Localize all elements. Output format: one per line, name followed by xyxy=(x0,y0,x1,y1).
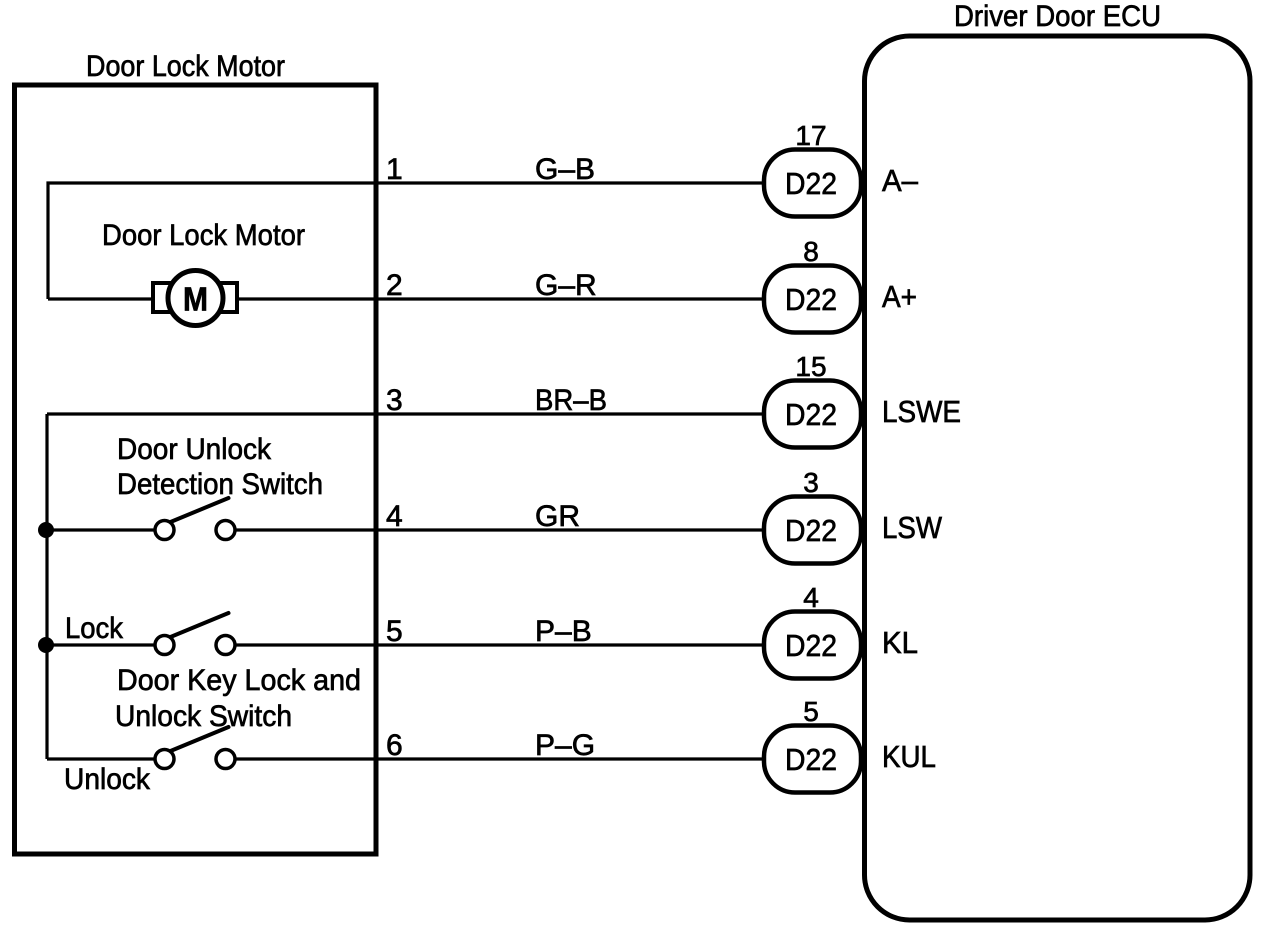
svg-text:Door Key Lock and: Door Key Lock and xyxy=(117,664,361,697)
wire: pin2 motor to D22-8 xyxy=(239,297,764,300)
switch SW2 arm xyxy=(171,613,229,637)
svg-text:KL: KL xyxy=(882,625,918,660)
svg-text:G–B: G–B xyxy=(535,153,595,186)
wire: unlock switch feed xyxy=(47,757,155,760)
wire: pin5 lock switch to D22-4 xyxy=(235,643,764,646)
svg-text:BR–B: BR–B xyxy=(535,384,607,417)
svg-text:GR: GR xyxy=(535,500,580,533)
left component box (door lock motor assembly enclosure) xyxy=(15,85,377,854)
svg-text:Unlock: Unlock xyxy=(64,763,151,796)
svg-text:2: 2 xyxy=(386,269,403,302)
junction node A (bus to detection switch) xyxy=(38,522,54,538)
svg-text:G–R: G–R xyxy=(535,269,597,302)
svg-text:P–G: P–G xyxy=(535,729,595,762)
motor M1 right terminal xyxy=(200,283,237,312)
connector D22 pin 5 oval xyxy=(764,726,861,793)
wire: pin3 switch common to D22-15 xyxy=(47,412,764,415)
svg-text:D22: D22 xyxy=(785,513,837,548)
svg-text:Door Lock Motor: Door Lock Motor xyxy=(86,50,285,83)
svg-text:LSWE: LSWE xyxy=(882,394,961,429)
junction node B (bus to lock switch) xyxy=(38,637,54,653)
svg-text:3: 3 xyxy=(386,384,403,417)
switch SW3 (key unlock) left contact xyxy=(155,750,174,769)
svg-text:M: M xyxy=(183,281,208,318)
svg-text:17: 17 xyxy=(795,120,826,151)
svg-text:5: 5 xyxy=(803,696,819,727)
connector D22 pin 17 oval xyxy=(764,150,861,217)
wire: pin6 unlock switch to D22-5 xyxy=(235,757,764,760)
svg-text:Door Unlock: Door Unlock xyxy=(117,433,272,466)
svg-text:D22: D22 xyxy=(785,742,837,777)
switch SW1 right contact xyxy=(216,521,235,540)
svg-text:LSW: LSW xyxy=(882,510,943,545)
svg-text:Driver Door ECU: Driver Door ECU xyxy=(954,0,1161,33)
switch SW2 right contact xyxy=(216,636,235,655)
ECU box (Driver Door ECU) xyxy=(865,36,1251,920)
svg-text:D22: D22 xyxy=(785,397,837,432)
connector D22 pin 15 oval xyxy=(764,381,861,448)
svg-text:A+: A+ xyxy=(882,279,917,314)
svg-text:8: 8 xyxy=(803,236,819,267)
switch SW3 right contact xyxy=(216,750,235,769)
connector D22 pin 8 oval xyxy=(764,266,861,333)
switch SW1 arm xyxy=(171,498,229,522)
wire: pin4 detection switch to D22-3 xyxy=(235,528,764,531)
switch SW2 (key lock) left contact xyxy=(155,636,174,655)
wire: junction B to lock switch xyxy=(46,643,155,646)
switch SW3 arm xyxy=(171,727,229,751)
wire: junction A to detection switch xyxy=(46,528,155,531)
svg-text:D22: D22 xyxy=(785,628,837,663)
svg-text:4: 4 xyxy=(386,500,403,533)
connector D22 pin 3 oval xyxy=(764,497,861,564)
svg-text:A–: A– xyxy=(882,163,919,198)
wire: left vertical bus xyxy=(45,414,48,759)
svg-text:5: 5 xyxy=(386,615,403,648)
switch SW1 (door unlock detection) left contact xyxy=(155,521,174,540)
svg-text:1: 1 xyxy=(386,153,403,186)
svg-text:3: 3 xyxy=(803,467,819,498)
svg-text:4: 4 xyxy=(803,582,819,613)
svg-text:D22: D22 xyxy=(785,166,837,201)
svg-text:D22: D22 xyxy=(785,282,837,317)
svg-text:KUL: KUL xyxy=(882,739,936,774)
svg-text:P–B: P–B xyxy=(535,615,592,648)
svg-text:6: 6 xyxy=(386,729,403,762)
svg-text:Unlock Switch: Unlock Switch xyxy=(115,700,292,733)
svg-text:Detection Switch: Detection Switch xyxy=(117,468,323,501)
svg-text:Door Lock Motor: Door Lock Motor xyxy=(102,219,305,252)
wire: pin1 motor loop (up and across to D22-17) xyxy=(48,183,764,299)
svg-text:Lock: Lock xyxy=(65,612,124,645)
motor M1 body xyxy=(168,271,223,326)
motor M1 left terminal xyxy=(153,283,191,312)
svg-text:15: 15 xyxy=(795,351,826,382)
wire: motor left feed xyxy=(48,297,152,300)
connector D22 pin 4 oval xyxy=(764,612,861,679)
